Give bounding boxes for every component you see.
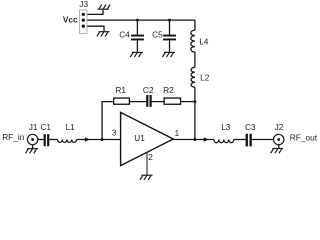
svg-text:J3: J3 xyxy=(79,0,88,9)
svg-text:L2: L2 xyxy=(200,72,210,82)
svg-text:1: 1 xyxy=(175,129,180,138)
svg-text:RF_out: RF_out xyxy=(290,132,318,142)
svg-text:RF_in: RF_in xyxy=(2,132,25,142)
svg-text:R2: R2 xyxy=(163,85,174,95)
svg-text:2: 2 xyxy=(148,152,153,162)
svg-text:C5: C5 xyxy=(152,29,163,39)
svg-text:L1: L1 xyxy=(66,122,76,132)
svg-text:C3: C3 xyxy=(245,122,256,132)
svg-text:3: 3 xyxy=(112,129,117,138)
svg-text:J1: J1 xyxy=(29,122,38,132)
svg-text:J2: J2 xyxy=(275,122,284,132)
svg-text:C4: C4 xyxy=(119,29,130,39)
svg-text:L4: L4 xyxy=(199,36,209,46)
svg-text:Vcc: Vcc xyxy=(63,15,78,25)
svg-text:C2: C2 xyxy=(143,85,154,95)
svg-text:L3: L3 xyxy=(221,122,231,132)
svg-text:U1: U1 xyxy=(134,133,145,143)
svg-text:R1: R1 xyxy=(115,85,126,95)
svg-text:C1: C1 xyxy=(40,122,51,132)
